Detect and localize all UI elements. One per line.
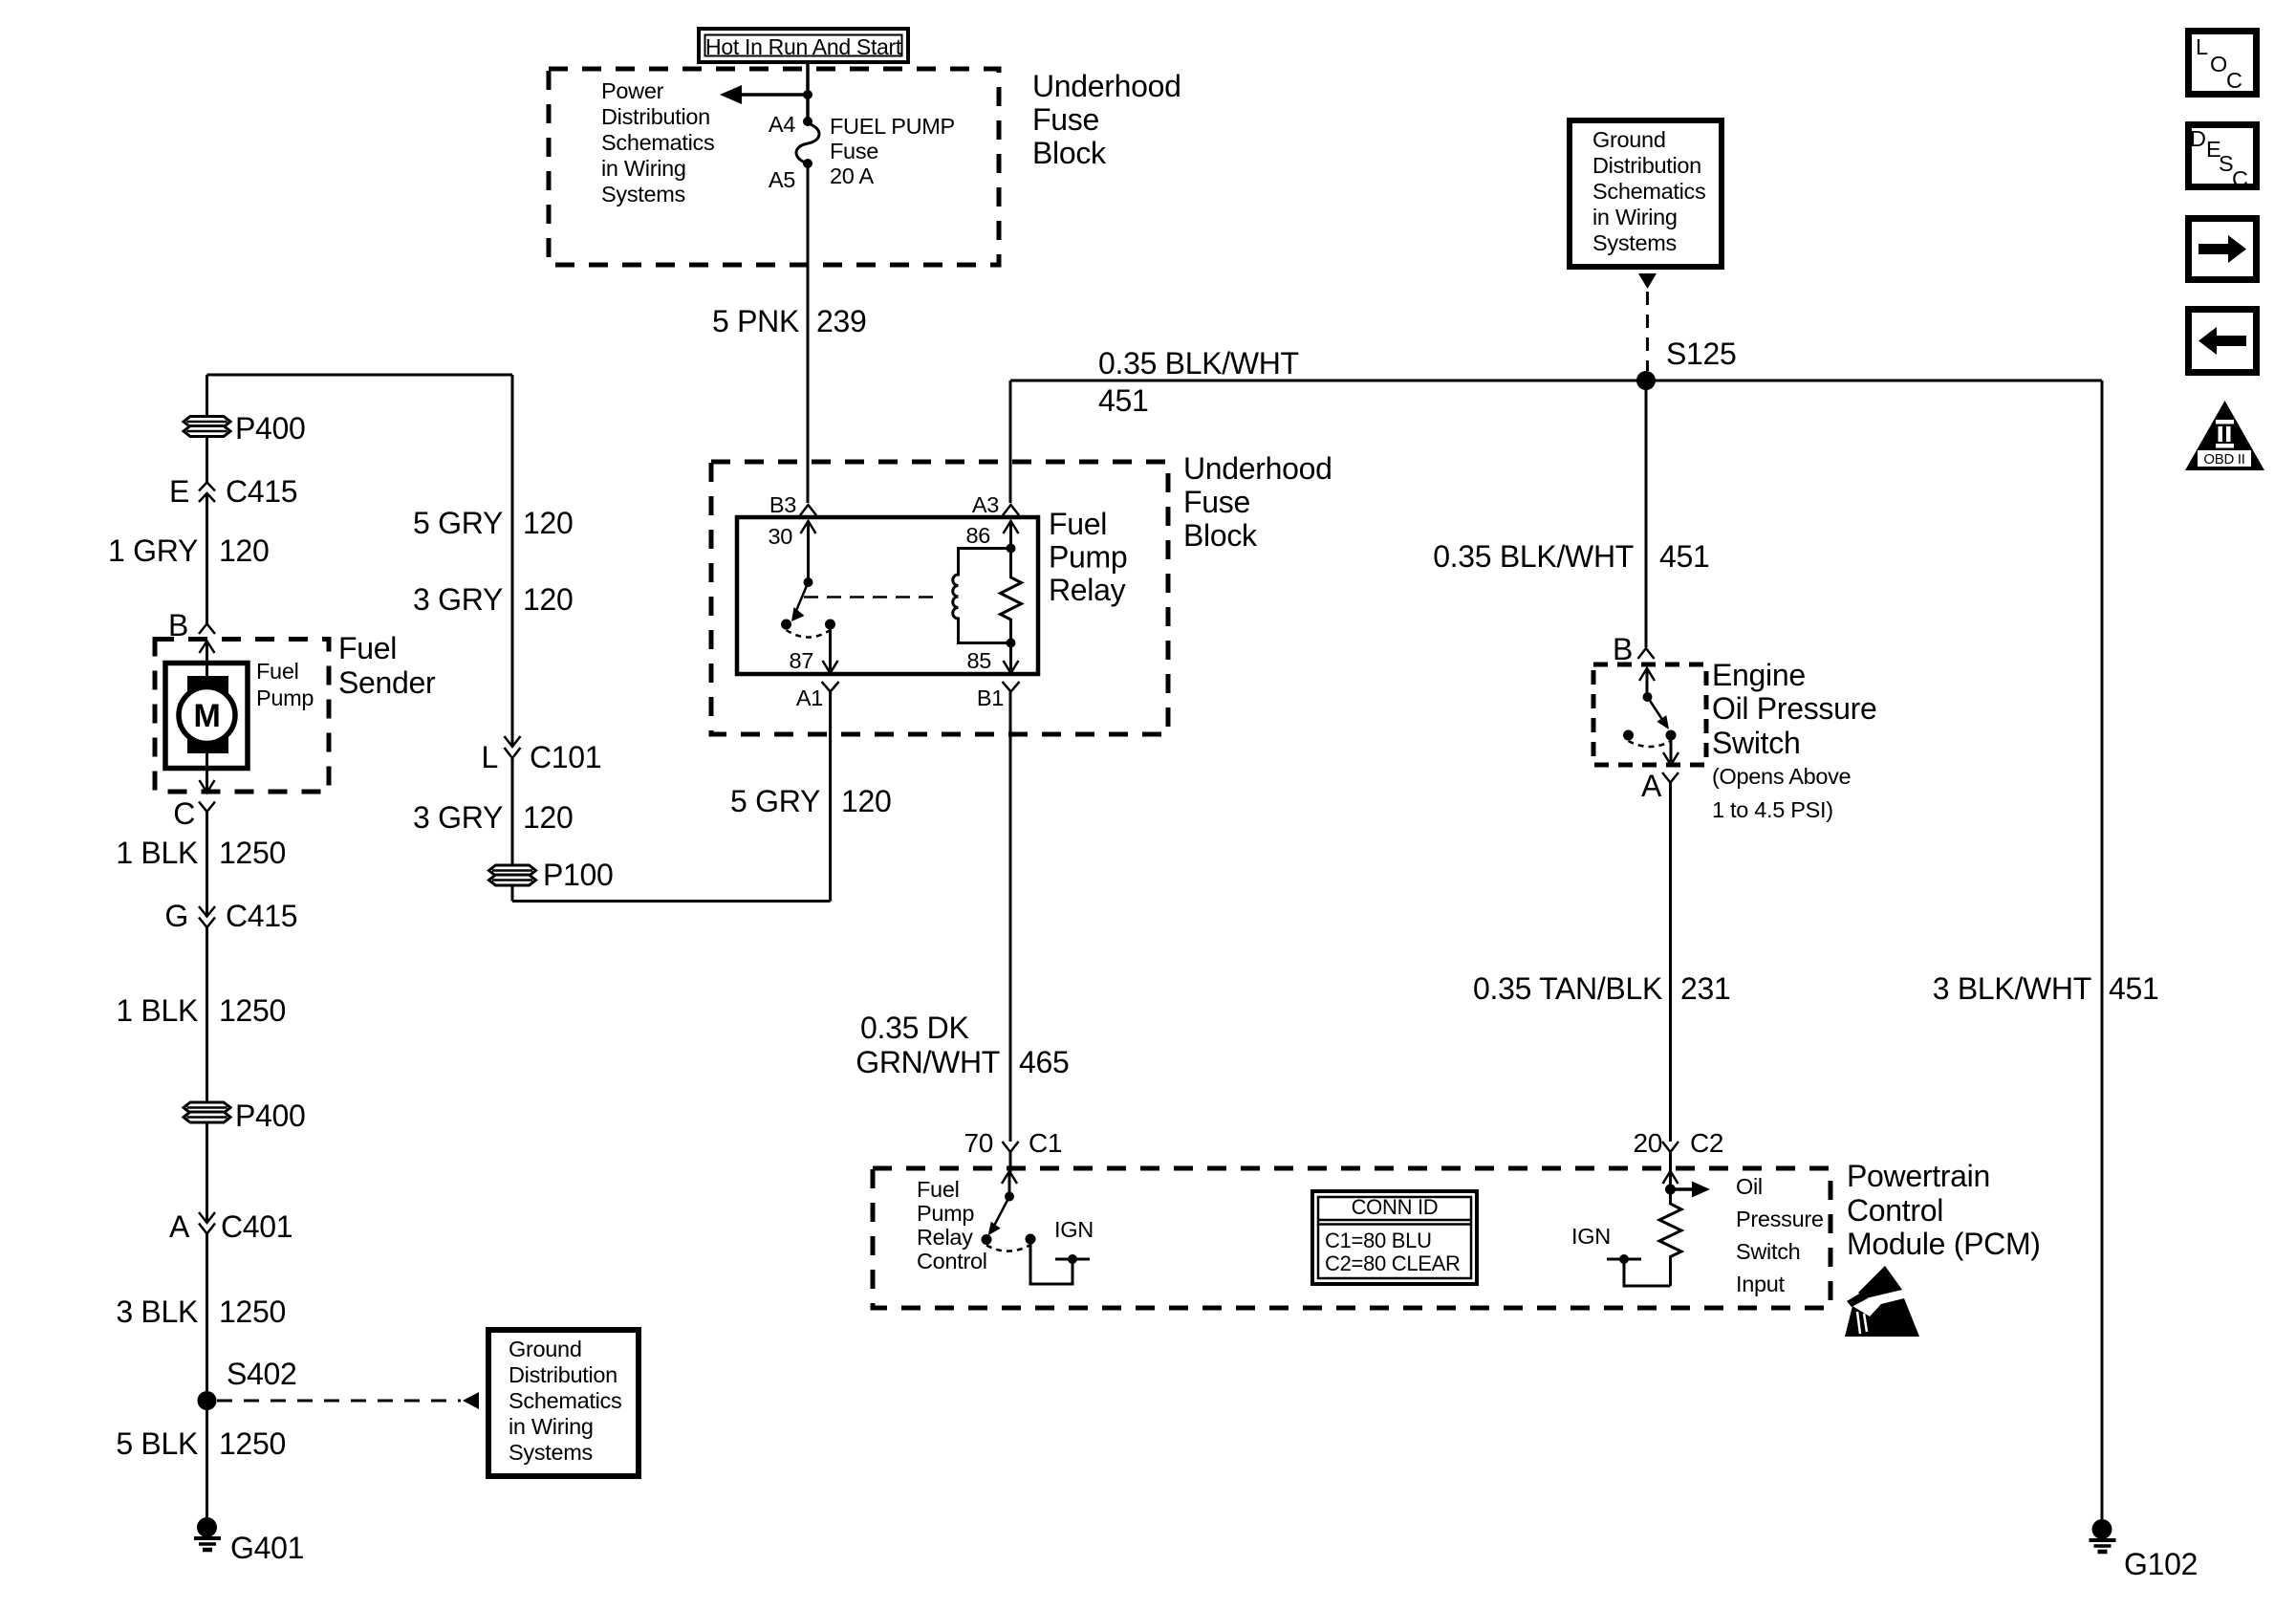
- svg-text:Distribution: Distribution: [1592, 153, 1701, 178]
- svg-text:O: O: [2210, 52, 2227, 76]
- fuel sender inlet arrow: [206, 642, 208, 664]
- wire: E to fuel sender B: [206, 493, 208, 624]
- svg-text:Fuel: Fuel: [338, 631, 397, 665]
- svg-text:70: 70: [964, 1128, 993, 1158]
- svg-text:C101: C101: [530, 740, 601, 774]
- svg-text:Power: Power: [601, 78, 664, 103]
- svg-text:1 to 4.5 PSI): 1 to 4.5 PSI): [1712, 797, 1833, 822]
- svg-text:86: 86: [965, 523, 990, 548]
- svg-text:5 GRY: 5 GRY: [730, 784, 820, 818]
- icon: forward arrow box: [2189, 219, 2257, 280]
- svg-text:Underhood: Underhood: [1183, 451, 1332, 486]
- svg-text:P400: P400: [235, 1099, 306, 1133]
- svg-text:Switch: Switch: [1712, 726, 1800, 760]
- svg-text:Schematics: Schematics: [509, 1388, 621, 1413]
- svg-text:30: 30: [768, 524, 792, 549]
- svg-text:Fuel: Fuel: [1049, 507, 1107, 541]
- connector C1 caret (pin 70): [1003, 1142, 1019, 1152]
- relay pin 86 arrow: [1009, 521, 1012, 549]
- svg-text:1 BLK: 1 BLK: [116, 836, 198, 870]
- svg-text:E: E: [169, 474, 189, 509]
- wire: B1 down to PCM 70 C1: [1009, 692, 1012, 1142]
- relay pin 87 arrow: [829, 624, 832, 670]
- svg-text:IGN: IGN: [1571, 1224, 1611, 1249]
- wire: S125 down to oil pressure switch B: [1645, 381, 1648, 647]
- svg-text:Ground: Ground: [509, 1337, 582, 1361]
- splice S125: [1636, 371, 1656, 390]
- svg-text:1 BLK: 1 BLK: [116, 993, 198, 1028]
- svg-text:in Wiring: in Wiring: [509, 1414, 594, 1439]
- Engine Oil Pressure Switch dashed box: [1593, 664, 1706, 765]
- fuse F: FUEL PUMP Fuse 20 A: [803, 117, 812, 126]
- svg-text:S402: S402: [227, 1357, 297, 1391]
- svg-text:P100: P100: [543, 858, 614, 892]
- svg-text:0.35 BLK/WHT: 0.35 BLK/WHT: [1098, 346, 1299, 381]
- relay switch: [804, 577, 813, 587]
- relay pin 85 arrow: [1009, 643, 1012, 671]
- svg-text:1250: 1250: [219, 836, 286, 870]
- svg-text:P400: P400: [235, 411, 306, 446]
- wire: C down to C415 G: [206, 812, 208, 917]
- svg-text:A4: A4: [769, 112, 795, 137]
- relay coil resistor: [1001, 549, 1022, 643]
- svg-text:Schematics: Schematics: [1592, 179, 1705, 204]
- svg-text:20: 20: [1633, 1128, 1662, 1158]
- icon: OBD II triangle: [2185, 401, 2264, 470]
- svg-text:M: M: [193, 698, 220, 734]
- svg-text:Input: Input: [1736, 1272, 1786, 1296]
- PCM pin 20 inlet arrow: [1669, 1152, 1672, 1189]
- svg-text:Sender: Sender: [338, 665, 436, 700]
- svg-text:Fuel: Fuel: [917, 1177, 960, 1202]
- ESD symbol: [1845, 1266, 1919, 1337]
- svg-text:A5: A5: [769, 167, 795, 192]
- Underhood Fuse Block (top) dashed box: [549, 69, 999, 265]
- wire: down to relay A3: [1009, 381, 1012, 503]
- Fuel Sender dashed box: [155, 640, 329, 793]
- PCM IGN feed (oil pressure side): [1624, 1261, 1671, 1286]
- svg-text:Fuel: Fuel: [256, 659, 299, 684]
- svg-text:B1: B1: [977, 685, 1004, 710]
- connector C101 double chevron: [505, 736, 521, 747]
- svg-text:in Wiring: in Wiring: [1592, 205, 1678, 229]
- fuel pump outlet arrow: [206, 768, 208, 791]
- svg-text:Fuse: Fuse: [830, 139, 878, 163]
- Fuel Pump Relay solid box: [737, 517, 1038, 674]
- connector C caret: [199, 802, 215, 813]
- svg-text:Pump: Pump: [1049, 540, 1127, 575]
- svg-text:231: 231: [1680, 971, 1731, 1006]
- splice S402: [198, 1391, 217, 1410]
- svg-text:120: 120: [523, 800, 574, 835]
- Ground Distribution Schematics box (top right): [1570, 120, 1722, 267]
- svg-text:Fuse: Fuse: [1032, 102, 1099, 137]
- wire: C101 to P100: [511, 758, 514, 902]
- svg-text:5 PNK: 5 PNK: [712, 304, 799, 338]
- svg-text:A1: A1: [796, 685, 823, 710]
- svg-text:20 A: 20 A: [830, 163, 874, 188]
- svg-text:120: 120: [841, 784, 892, 818]
- PCM pull-up resistor: [1659, 1189, 1681, 1286]
- PCM IGN feed (relay control side): [1030, 1239, 1072, 1284]
- oil pressure switch inlet arrow: [1646, 669, 1649, 697]
- svg-text:Hot In Run And Start: Hot In Run And Start: [705, 34, 902, 59]
- svg-text:Ground: Ground: [1592, 127, 1666, 152]
- svg-text:C1=80 BLU: C1=80 BLU: [1325, 1229, 1432, 1252]
- wire: middle branch x=536 from top wire to C101: [511, 375, 514, 747]
- svg-text:Pressure: Pressure: [1736, 1207, 1824, 1231]
- svg-text:C: C: [173, 796, 195, 831]
- svg-text:Systems: Systems: [601, 182, 685, 207]
- PCM pin 70 inlet arrow: [1009, 1152, 1012, 1172]
- relay pin 30 arrow: [807, 521, 810, 582]
- svg-text:GRN/WHT: GRN/WHT: [856, 1045, 1000, 1079]
- fuel pump M motor: [165, 664, 248, 769]
- svg-text:Pump: Pump: [256, 685, 314, 710]
- reference dashed line to ground distribution box: [217, 1400, 461, 1403]
- svg-text:FUEL PUMP: FUEL PUMP: [830, 114, 955, 139]
- svg-text:Module (PCM): Module (PCM): [1847, 1227, 2041, 1261]
- Powertrain Control Module dashed box: [873, 1168, 1830, 1308]
- svg-text:S125: S125: [1666, 337, 1737, 371]
- connector A caret (oil pressure switch): [1662, 772, 1679, 783]
- inline connector P100: [489, 865, 536, 885]
- svg-text:120: 120: [523, 506, 574, 540]
- wire: G down through P400 to C401: [206, 927, 208, 1222]
- svg-text:Block: Block: [1032, 136, 1107, 170]
- connector C415 (E) double chevron: [199, 483, 215, 491]
- svg-text:A3: A3: [972, 492, 999, 517]
- wire: top horizontal left: [207, 374, 513, 377]
- svg-text:Oil: Oil: [1736, 1174, 1763, 1199]
- wire: 5 PNK 239 from fuse A5 to relay B3: [807, 163, 810, 503]
- svg-text:3 BLK/WHT: 3 BLK/WHT: [1933, 971, 2091, 1006]
- svg-text:Pump: Pump: [917, 1201, 974, 1226]
- svg-text:85: 85: [966, 648, 991, 673]
- svg-text:in Wiring: in Wiring: [601, 156, 686, 181]
- svg-text:C401: C401: [221, 1209, 292, 1244]
- svg-text:L: L: [2196, 34, 2208, 59]
- svg-text:G: G: [164, 899, 188, 933]
- connector B3 caret: [800, 505, 816, 515]
- svg-text:87: 87: [789, 648, 813, 673]
- svg-text:451: 451: [2109, 971, 2159, 1006]
- svg-text:120: 120: [219, 533, 270, 568]
- svg-text:Relay: Relay: [917, 1225, 973, 1250]
- connector C2 caret (pin 20): [1662, 1142, 1679, 1152]
- svg-text:Control: Control: [917, 1249, 987, 1273]
- svg-text:Distribution: Distribution: [601, 104, 710, 129]
- svg-text:1250: 1250: [219, 1295, 286, 1329]
- svg-text:0.35 TAN/BLK: 0.35 TAN/BLK: [1473, 971, 1662, 1006]
- CONN ID table: [1312, 1191, 1477, 1284]
- svg-text:IGN: IGN: [1054, 1217, 1094, 1242]
- svg-text:239: 239: [816, 304, 867, 338]
- svg-text:1250: 1250: [219, 1426, 286, 1461]
- svg-text:CONN ID: CONN ID: [1352, 1195, 1439, 1219]
- reference arrow down to S125: [1638, 273, 1657, 289]
- svg-text:Schematics: Schematics: [601, 130, 714, 155]
- svg-text:Systems: Systems: [1592, 230, 1677, 255]
- wire: right side down to G102: [2101, 381, 2104, 1519]
- svg-text:Oil Pressure: Oil Pressure: [1712, 691, 1876, 726]
- wire: 0.35 BLK/WHT 451 horizontal: [1010, 380, 2102, 382]
- icon: back arrow box: [2189, 310, 2257, 373]
- icon: LOC box: [2189, 32, 2257, 95]
- svg-text:A: A: [1641, 769, 1662, 803]
- connector C401 (A) double chevron: [199, 1212, 215, 1223]
- svg-text:465: 465: [1019, 1045, 1070, 1079]
- feed box: Hot In Run And Start: [699, 29, 908, 62]
- wire: 0.35 TAN/BLK 231 down to PCM 20 C2: [1669, 783, 1672, 1142]
- svg-text:B3: B3: [769, 492, 796, 517]
- ground G401: [197, 1517, 217, 1537]
- wire: left column top segment: [206, 375, 208, 483]
- inline connector P400 (lower): [184, 1102, 230, 1122]
- svg-text:3 GRY: 3 GRY: [413, 582, 503, 617]
- connector B caret (oil pressure switch): [1638, 648, 1655, 659]
- svg-text:OBD II: OBD II: [2203, 451, 2244, 468]
- oil pressure switch outlet arrow: [1670, 735, 1673, 762]
- svg-text:5 BLK: 5 BLK: [116, 1426, 198, 1461]
- svg-text:451: 451: [1098, 383, 1149, 418]
- PCM fuel pump relay control switch: [1005, 1192, 1014, 1202]
- svg-text:1 GRY: 1 GRY: [108, 533, 198, 568]
- svg-text:Systems: Systems: [509, 1440, 593, 1465]
- relay actuating dashed link: [804, 596, 940, 598]
- svg-text:Engine: Engine: [1712, 658, 1806, 692]
- icon: DESC box: [2189, 125, 2257, 187]
- svg-text:3 GRY: 3 GRY: [413, 800, 503, 835]
- oil pressure switch contacts: [1643, 692, 1653, 702]
- svg-text:0.35 BLK/WHT: 0.35 BLK/WHT: [1433, 539, 1634, 574]
- svg-text:C415: C415: [226, 474, 297, 509]
- PCM oil pressure switch input signal arrow: [1671, 1187, 1695, 1191]
- svg-text:451: 451: [1659, 539, 1710, 574]
- connector B caret: [199, 624, 215, 635]
- inline connector P400 (upper): [184, 417, 230, 437]
- Ground Distribution Schematics box (bottom): [488, 1330, 639, 1476]
- svg-text:C415: C415: [226, 899, 297, 933]
- connector A1 caret: [822, 682, 839, 692]
- wire: feed from Hot In Run And Start to fuse A4: [806, 64, 810, 119]
- svg-text:B: B: [1613, 632, 1633, 666]
- svg-text:Distribution: Distribution: [509, 1362, 617, 1387]
- connector B1 caret: [1003, 682, 1020, 692]
- node: junction on feed wire: [803, 90, 812, 99]
- svg-text:5 GRY: 5 GRY: [413, 506, 503, 540]
- Underhood Fuse Block (relay) dashed box: [711, 462, 1168, 734]
- svg-text:1250: 1250: [219, 993, 286, 1028]
- svg-text:C2: C2: [1690, 1128, 1723, 1158]
- svg-text:120: 120: [523, 582, 574, 617]
- svg-text:Block: Block: [1183, 518, 1258, 553]
- wire: horizontal from P100 leg to A1 leg: [512, 900, 831, 903]
- relay coil: [1007, 544, 1016, 554]
- svg-text:L: L: [482, 740, 499, 774]
- svg-text:3 BLK: 3 BLK: [116, 1295, 198, 1329]
- svg-text:Switch: Switch: [1736, 1239, 1800, 1264]
- svg-text:G401: G401: [230, 1531, 304, 1565]
- svg-text:(Opens Above: (Opens Above: [1712, 764, 1852, 789]
- svg-text:B: B: [168, 608, 188, 642]
- svg-text:C: C: [2232, 166, 2248, 191]
- svg-text:Control: Control: [1847, 1193, 1943, 1228]
- svg-text:C1: C1: [1029, 1128, 1062, 1158]
- svg-text:G102: G102: [2124, 1547, 2198, 1581]
- ground G102: [2092, 1519, 2112, 1539]
- wire: arrow to other power distribution loads: [740, 93, 808, 97]
- svg-text:D: D: [2190, 126, 2206, 151]
- svg-text:Fuse: Fuse: [1183, 485, 1250, 519]
- svg-text:Underhood: Underhood: [1032, 69, 1181, 103]
- svg-text:C2=80 CLEAR: C2=80 CLEAR: [1325, 1251, 1461, 1275]
- svg-text:A: A: [169, 1209, 190, 1244]
- svg-text:Powertrain: Powertrain: [1847, 1159, 1990, 1193]
- wire: A down to G401: [206, 1234, 208, 1521]
- connector A3 caret: [1003, 505, 1019, 515]
- wire: A1 down: [829, 692, 832, 902]
- svg-text:Relay: Relay: [1049, 573, 1126, 607]
- svg-text:0.35 DK: 0.35 DK: [860, 1011, 969, 1045]
- connector C415 (G) double chevron: [199, 906, 215, 917]
- svg-text:C: C: [2226, 68, 2242, 93]
